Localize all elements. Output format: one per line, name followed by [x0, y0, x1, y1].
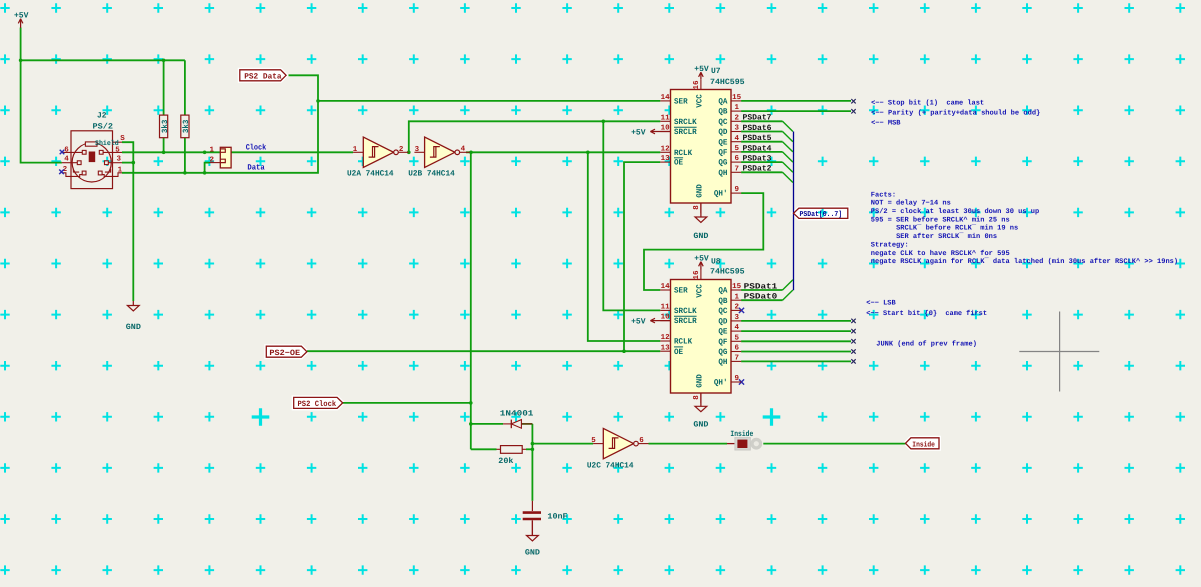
wire Clock net — [122, 151, 353, 153]
label 1N4001 — [500, 409, 534, 418]
pin text U7 — [661, 94, 671, 102]
pin 3 (U2B) — [415, 145, 420, 154]
pin text U7 — [714, 190, 728, 199]
label 74HC595 (U7) — [710, 78, 745, 87]
junction SRCLK branch — [602, 120, 606, 124]
shift register U8 74HC595 — [660, 269, 741, 403]
svg-text:3: 3 — [735, 124, 740, 133]
svg-text:9: 9 — [735, 185, 740, 194]
pin 6 (U2C) — [639, 436, 644, 445]
wire U2C output to Inside — [649, 443, 906, 445]
pin text U7 — [718, 149, 727, 158]
inverter U2C 74HC14 — [593, 428, 648, 458]
power +5V top-left — [14, 11, 29, 28]
label 74HC595 (U8) — [710, 268, 745, 277]
svg-text:14: 14 — [661, 94, 671, 102]
svg-text:1: 1 — [735, 104, 740, 112]
svg-text:74HC595: 74HC595 — [710, 78, 745, 87]
svg-text:13: 13 — [661, 154, 671, 163]
net label PSDat7 — [743, 114, 772, 123]
pin 3 — [117, 155, 122, 164]
pin text U7 — [674, 149, 692, 158]
power +5V U7 SRCLR — [631, 128, 670, 137]
pin text U8 — [674, 287, 688, 296]
pin text U7 — [735, 165, 740, 173]
note parity — [871, 109, 1040, 118]
label Shield — [95, 139, 119, 148]
svg-text:GND: GND — [693, 421, 708, 430]
svg-text:+5V: +5V — [694, 65, 709, 74]
svg-text:JUNK (end of prev frame): JUNK (end of prev frame) — [876, 339, 977, 348]
junction +5V rail — [19, 59, 166, 63]
svg-text:QC: QC — [718, 307, 727, 316]
pin S — [120, 134, 125, 143]
pin text U7 — [674, 118, 697, 127]
pin text U7 — [735, 154, 740, 163]
pin text U7 — [735, 124, 740, 133]
hierarchical label PS2 Data — [240, 70, 286, 82]
svg-text:1: 1 — [353, 146, 358, 154]
svg-text:PS2 Data: PS2 Data — [244, 73, 282, 82]
pin text U7 — [661, 114, 671, 122]
junction RCLK branch — [586, 151, 590, 155]
svg-text:QD: QD — [718, 318, 727, 327]
svg-text:PS2−OE: PS2−OE — [269, 349, 300, 358]
junction shield/pin3 — [132, 161, 136, 165]
pin text U8 — [718, 328, 727, 337]
svg-text:<−− Start bit {0} came first: <−− Start bit {0} came first — [866, 309, 987, 318]
svg-text:<−− Stop bit (1) came last: <−− Stop bit (1) came last — [871, 98, 984, 107]
svg-text:GND: GND — [525, 549, 540, 558]
svg-text:2: 2 — [735, 113, 740, 122]
wire U7 QE to bus entry — [741, 142, 793, 152]
junction U2B out / PS2 Clock — [469, 151, 473, 155]
net label PSDat2 — [743, 165, 772, 174]
svg-text:PSDat[0..7]: PSDat[0..7] — [800, 210, 843, 219]
svg-text:PSDat5: PSDat5 — [743, 134, 772, 143]
wire U7 QB parity — [741, 110, 851, 112]
svg-text:+5V: +5V — [631, 318, 646, 327]
net label PSDat5 — [743, 134, 772, 143]
wire U7 QA stop bit — [741, 100, 851, 102]
no-connect x U8 QH' — [739, 379, 744, 384]
svg-text:5: 5 — [735, 334, 740, 342]
svg-text:3k3: 3k3 — [182, 119, 191, 133]
svg-text:OE: OE — [674, 348, 683, 357]
wire U8 QD — [741, 320, 851, 322]
svg-text:QF: QF — [718, 149, 727, 158]
label 20k — [498, 457, 513, 466]
no-connect x QE U8 — [851, 329, 855, 333]
wire PS2 Clock net — [343, 152, 503, 449]
sheet cursor crosshair — [1019, 312, 1099, 392]
svg-text:1N4001: 1N4001 — [500, 409, 534, 418]
svg-text:595 = SER before SRCLK^ min 25: 595 = SER before SRCLK^ min 25 ns — [871, 215, 1010, 224]
svg-text:PS/2 = clock at least 30us dow: PS/2 = clock at least 30us down 30 us up — [871, 207, 1039, 216]
svg-text:negate RSCLK again for RCLK‾ d: negate RSCLK again for RCLK‾ data latche… — [871, 257, 1178, 266]
shift register U7 74HC595 — [660, 79, 741, 213]
svg-text:3: 3 — [735, 313, 740, 322]
svg-text:14: 14 — [661, 283, 671, 291]
pin text U8 — [718, 338, 727, 347]
ground GND capacitor — [525, 520, 540, 557]
capacitor C1 10nF — [523, 501, 541, 536]
svg-text:Inside: Inside — [912, 440, 935, 449]
bus label PSDat[0..7] — [794, 208, 848, 219]
svg-text:4: 4 — [735, 135, 740, 143]
pin text U7 — [718, 159, 727, 168]
pin 1 (J2) — [118, 167, 123, 175]
svg-text:+5V: +5V — [14, 11, 29, 20]
svg-text:GND: GND — [696, 184, 705, 198]
svg-text:U7: U7 — [711, 67, 721, 76]
svg-text:9: 9 — [735, 374, 740, 383]
svg-text:7: 7 — [735, 355, 740, 363]
ground GND U8 — [693, 392, 708, 430]
wire RCLK net — [466, 152, 660, 341]
pin text U8 — [674, 338, 692, 347]
label 10nF — [547, 512, 567, 521]
svg-text:QE: QE — [718, 328, 727, 337]
pin text U8 — [674, 307, 697, 316]
pin text U7 — [696, 184, 705, 198]
pin text U8 — [732, 283, 742, 291]
note LSB — [866, 300, 896, 308]
inverter U2A 74HC14 — [353, 137, 408, 167]
pin 2 (J3) — [210, 155, 215, 164]
no-connect x QG U8 — [851, 349, 855, 353]
wire U7 QG to bus entry — [741, 162, 793, 172]
resistor R2 3k3 (Data pull-up) — [181, 115, 191, 138]
no-connect x U8 QC — [739, 308, 744, 313]
no-connect x QH U8 — [851, 359, 855, 363]
note MSB — [871, 120, 901, 128]
svg-text:4: 4 — [735, 324, 740, 332]
net label PSDat6 — [743, 124, 772, 133]
wire R1 bottom to Clock — [163, 138, 165, 153]
pin 1 (U2A) — [353, 146, 358, 154]
svg-text:S: S — [120, 134, 125, 143]
resistor R1 3k3 (Clock pull-up) — [160, 115, 170, 138]
pin text U7 — [661, 144, 671, 153]
hierarchical label PS2 Clock — [294, 397, 343, 409]
pin 2 (U2A) — [399, 145, 404, 154]
svg-text:<−− Parity (+ parity+data shou: <−− Parity (+ parity+data should be odd} — [871, 109, 1040, 118]
pin text U7 — [661, 154, 671, 163]
svg-text:<−− LSB: <−− LSB — [866, 300, 896, 308]
ground GND shield — [126, 301, 141, 332]
svg-text:QG: QG — [718, 159, 727, 168]
bus PSDat[0..7] — [793, 132, 795, 291]
svg-text:Facts:: Facts: — [871, 191, 896, 199]
junction U2A out — [407, 151, 411, 155]
pin text U7 — [696, 94, 705, 108]
pin text U8 — [718, 318, 727, 327]
svg-text:PSDat6: PSDat6 — [743, 124, 772, 133]
svg-text:PS2 Clock: PS2 Clock — [298, 400, 337, 409]
power +5V U8 VCC — [694, 254, 709, 269]
hierarchical label PS2-OE — [266, 346, 307, 358]
svg-text:RCLK: RCLK — [674, 338, 692, 347]
wire U7 QC to bus entry — [741, 121, 793, 131]
connector J2 PS/2 mini-DIN — [62, 131, 122, 189]
pin text U8 — [718, 348, 727, 357]
svg-text:20k: 20k — [498, 457, 513, 466]
svg-text:QF: QF — [718, 338, 727, 347]
pin text U8 — [661, 283, 671, 291]
svg-text:2: 2 — [399, 145, 404, 154]
wire Data net — [122, 75, 660, 173]
label fills (white backgrounds) — [240, 70, 939, 449]
wire J3 pin2 to Data — [205, 163, 210, 173]
svg-text:SRCLK: SRCLK — [674, 307, 697, 316]
pin text U8 — [718, 358, 727, 367]
svg-text:SRCLK: SRCLK — [674, 118, 697, 127]
svg-text:5: 5 — [591, 437, 596, 445]
pin text U8 — [696, 284, 705, 298]
pin text U7 — [674, 98, 688, 107]
ground GND U7 — [693, 203, 708, 241]
svg-text:15: 15 — [732, 94, 742, 102]
svg-text:PSDat1: PSDat1 — [744, 282, 778, 291]
svg-text:OE: OE — [674, 159, 683, 168]
wire PS2-OE net — [307, 162, 660, 351]
svg-text:12: 12 — [661, 144, 671, 153]
pin text U7 — [674, 158, 683, 168]
net label PSDat3 — [743, 155, 772, 164]
wire U7 QF to bus entry — [741, 152, 793, 162]
net label PSDat0 — [744, 293, 778, 302]
svg-text:GND: GND — [696, 374, 705, 388]
svg-text:QG: QG — [718, 348, 727, 357]
svg-text:4: 4 — [64, 156, 69, 164]
no-connect x QB U7 — [851, 109, 855, 113]
note JUNK — [876, 339, 977, 348]
pin text U8 — [735, 344, 740, 353]
pin text U8 — [692, 270, 701, 280]
pin text U8 — [661, 333, 671, 342]
pin text U8 — [696, 374, 705, 388]
pin 5 — [115, 147, 120, 155]
hierarchical label Inside — [906, 438, 940, 450]
svg-text:1: 1 — [735, 293, 740, 301]
svg-text:13: 13 — [661, 343, 671, 352]
pin text U8 — [718, 307, 727, 316]
no-connect x pin6 — [60, 150, 65, 155]
pin text U8 — [661, 343, 671, 352]
svg-text:PSDat7: PSDat7 — [743, 114, 772, 123]
label U8 — [711, 257, 721, 266]
net label Data — [247, 164, 264, 173]
wire U8 QE — [741, 330, 851, 332]
svg-text:QH: QH — [718, 358, 727, 367]
pin text U7 — [674, 127, 697, 137]
pin text U7 — [718, 108, 727, 117]
svg-text:negate CLK to have RSCLK^ for: negate CLK to have RSCLK^ for 595 — [871, 249, 1010, 258]
wire U7 QH' cascade to U8 SER — [644, 193, 763, 290]
svg-text:PSDat2: PSDat2 — [743, 165, 772, 174]
svg-text:4: 4 — [461, 146, 466, 154]
svg-text:QH: QH — [718, 169, 727, 178]
svg-text:QB: QB — [718, 108, 727, 117]
pin 6 — [64, 146, 69, 155]
pin text U8 — [718, 297, 727, 306]
svg-text:VCC: VCC — [696, 284, 705, 298]
pin 5 (U2C) — [591, 437, 596, 445]
svg-text:+5V: +5V — [631, 128, 646, 137]
svg-text:SER: SER — [674, 98, 688, 107]
svg-text:QA: QA — [718, 287, 727, 296]
svg-text:QB: QB — [718, 297, 727, 306]
no-connect x QD U8 — [851, 319, 855, 323]
pin text U8 — [674, 316, 697, 326]
junction diode branch — [469, 422, 473, 426]
pin text U7 — [718, 138, 727, 147]
svg-text:11: 11 — [661, 304, 671, 312]
wire R2 bottom to Data — [184, 138, 186, 173]
svg-text:SRCLR: SRCLR — [674, 317, 697, 326]
junction RC/U2C input — [531, 442, 535, 446]
no-connect x QF U8 — [851, 339, 855, 343]
wire shield to GND — [122, 142, 133, 301]
pin 2 (J2) — [63, 165, 68, 174]
svg-text:Inside: Inside — [730, 430, 753, 439]
wire U8 QF — [741, 340, 851, 342]
svg-text:6: 6 — [735, 344, 740, 353]
no-connect x pin2 — [59, 170, 64, 175]
net label PSDat4 — [743, 144, 772, 153]
pin text U8 — [735, 324, 740, 332]
svg-text:U2B 74HC14: U2B 74HC14 — [408, 170, 455, 179]
label U2C 74HC14 — [587, 461, 634, 470]
svg-text:SER after SRCLK‾ min 0ns: SER after SRCLK‾ min 0ns — [896, 232, 997, 241]
pin text U7 — [735, 104, 740, 112]
svg-text:J2: J2 — [97, 112, 107, 121]
svg-text:15: 15 — [732, 283, 742, 291]
junction RC/R3 — [531, 448, 535, 452]
svg-text:RCLK: RCLK — [674, 149, 692, 158]
svg-text:QD: QD — [718, 128, 727, 137]
connector J3 (2-pin) — [210, 147, 232, 168]
svg-text:6: 6 — [639, 436, 644, 445]
pin 1 (J3) — [210, 147, 215, 155]
wire U8 QH — [741, 360, 851, 362]
svg-text:VCC: VCC — [696, 94, 705, 108]
svg-text:8: 8 — [692, 205, 701, 210]
svg-text:74HC595: 74HC595 — [710, 268, 745, 277]
LED D2 Inside — [727, 438, 762, 450]
net label Clock — [246, 144, 267, 153]
pin text U7 — [735, 145, 740, 153]
svg-text:GND: GND — [126, 323, 141, 332]
junction OE branch — [622, 349, 626, 353]
svg-text:Data: Data — [247, 164, 264, 173]
wire SRCLK net — [409, 121, 661, 310]
svg-text:NOT = delay 7−14 ns: NOT = delay 7−14 ns — [871, 199, 951, 208]
wire +5V rail top-left — [21, 28, 185, 163]
pin text U8 — [661, 313, 671, 322]
svg-text:SER: SER — [674, 287, 688, 296]
no-connect x QA U7 — [851, 99, 855, 103]
svg-text:QA: QA — [718, 98, 727, 107]
note start bit — [866, 309, 987, 318]
svg-text:16: 16 — [692, 80, 701, 90]
svg-text:10: 10 — [661, 124, 671, 133]
pin text U8 — [714, 379, 728, 388]
junction Clock/R1 — [162, 151, 166, 155]
pin text U8 — [735, 293, 740, 301]
svg-text:2: 2 — [735, 303, 740, 312]
pin text U8 — [661, 304, 671, 312]
svg-text:Clock: Clock — [246, 144, 267, 153]
svg-text:3: 3 — [415, 145, 420, 154]
svg-text:PS/2: PS/2 — [93, 123, 114, 132]
pin text U8 — [735, 374, 740, 383]
pin text U8 — [735, 355, 740, 363]
svg-text:2: 2 — [210, 155, 215, 164]
label Inside (LED) — [730, 430, 753, 439]
svg-text:U2C 74HC14: U2C 74HC14 — [587, 461, 634, 470]
pin text U7 — [718, 118, 727, 127]
pin text U7 — [692, 80, 701, 90]
pin 4 — [64, 156, 69, 164]
pin text U7 — [735, 135, 740, 143]
svg-text:U2A 74HC14: U2A 74HC14 — [347, 170, 394, 179]
svg-text:SRCLR: SRCLR — [674, 128, 697, 137]
svg-text:11: 11 — [661, 114, 671, 122]
wire RC node to U2C — [521, 424, 593, 501]
svg-text:8: 8 — [692, 395, 701, 400]
svg-text:5: 5 — [735, 145, 740, 153]
svg-text:PSDat4: PSDat4 — [743, 144, 772, 153]
pin text U7 — [735, 113, 740, 122]
junction Data/J3 pin2 — [203, 171, 207, 175]
junction Data/R2 — [183, 171, 187, 175]
svg-text:QH': QH' — [714, 190, 728, 199]
label U7 — [711, 67, 721, 76]
pin text U8 — [674, 347, 683, 357]
svg-text:10nF: 10nF — [547, 512, 567, 521]
pin text U7 — [718, 169, 727, 178]
svg-text:3: 3 — [117, 155, 122, 164]
pin 4 (U2B) — [461, 146, 466, 154]
svg-text:PSDat3: PSDat3 — [743, 155, 772, 164]
label J2 — [97, 112, 107, 121]
net label PSDat1 — [744, 282, 778, 291]
wire U8 QG — [741, 351, 851, 353]
svg-text:12: 12 — [661, 333, 671, 342]
svg-text:<−− MSB: <−− MSB — [871, 120, 901, 128]
wire U8 QA to bus entry — [741, 280, 793, 290]
label U2B 74HC14 — [408, 170, 455, 179]
junction Data/SER — [316, 99, 320, 103]
svg-text:QH': QH' — [714, 379, 728, 388]
svg-text:3k3: 3k3 — [161, 119, 170, 133]
junction PS2 Clock — [469, 401, 473, 405]
svg-text:SRCLK‾ before RCLK‾ min 19 ns: SRCLK‾ before RCLK‾ min 19 ns — [896, 224, 1018, 233]
svg-text:+5V: +5V — [694, 254, 709, 263]
svg-text:6: 6 — [64, 146, 69, 155]
label U2A 74HC14 — [347, 170, 394, 179]
svg-text:GND: GND — [693, 232, 708, 241]
svg-text:Strategy:: Strategy: — [871, 242, 909, 250]
svg-text:PSDat0: PSDat0 — [744, 293, 778, 302]
pin text U8 — [735, 303, 740, 312]
svg-text:1: 1 — [210, 147, 215, 155]
pin text U7 — [661, 124, 671, 133]
svg-text:1: 1 — [118, 167, 123, 175]
pin text U7 — [692, 205, 701, 210]
